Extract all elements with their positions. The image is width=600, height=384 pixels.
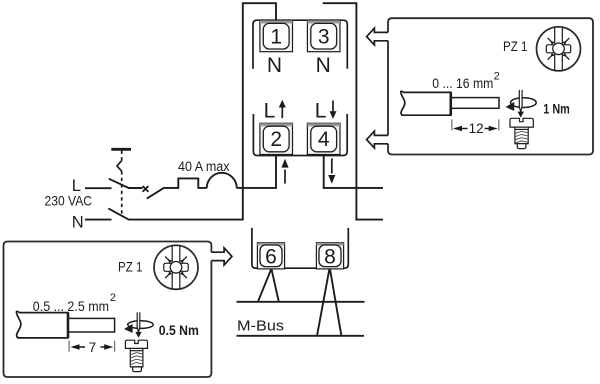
breaker contact X mark <box>143 186 149 192</box>
terminal 1 <box>260 21 293 52</box>
svg-text:2: 2 <box>110 292 116 304</box>
M-Bus line A <box>237 301 365 303</box>
cable stripped conductor (right box) <box>451 98 499 109</box>
svg-text:8: 8 <box>324 246 336 269</box>
cable insulated (right box) <box>401 91 451 115</box>
fuse square bump 40A <box>178 178 198 188</box>
svg-text:PZ 1: PZ 1 <box>503 38 528 54</box>
svg-text:M-Bus: M-Bus <box>237 318 284 335</box>
torque rotation symbol (left box) <box>124 312 153 338</box>
terminal 6 <box>257 243 284 269</box>
wire L out: terminal 4 to load L <box>323 155 383 188</box>
info box left (M-Bus terminals) <box>4 242 212 378</box>
arrow from box to terminal row 1/3 <box>367 28 388 45</box>
svg-text:12: 12 <box>469 121 484 136</box>
svg-text:40 A max: 40 A max <box>178 159 230 174</box>
svg-text:N: N <box>72 213 84 231</box>
switch actuator bar <box>111 148 131 151</box>
terminal screw (left box) <box>125 340 147 371</box>
wire L in: breaker L pole to terminal 2 <box>85 155 276 189</box>
M-Bus line B <box>237 335 365 337</box>
svg-text:6: 6 <box>265 246 277 269</box>
switch blade N pole <box>108 208 128 219</box>
svg-text:2: 2 <box>270 128 282 151</box>
M-Bus wire pair from terminal 8 <box>317 270 341 336</box>
svg-text:N: N <box>267 54 282 77</box>
svg-text:2: 2 <box>494 70 500 82</box>
wire N in: from breaker N pole up and into terminal 1 <box>85 2 276 220</box>
cable insulated (left box) <box>16 311 68 338</box>
terminal screw (right box) <box>510 118 533 148</box>
svg-text:0.5 ... 2.5 mm: 0.5 ... 2.5 mm <box>33 298 109 314</box>
svg-text:230 VAC: 230 VAC <box>45 193 93 209</box>
wire N out: terminal 3 to load N <box>323 2 383 219</box>
svg-text:PZ 1: PZ 1 <box>118 259 143 275</box>
info box right (wiring L/N terminals) <box>388 18 593 154</box>
switch blade L pole <box>109 179 129 188</box>
svg-text:1: 1 <box>270 26 282 49</box>
strip length dimension 12 <box>452 119 499 135</box>
strip length dimension 7 <box>69 340 115 355</box>
torque rotation symbol (right box) <box>506 90 537 118</box>
svg-text:7: 7 <box>89 340 97 355</box>
terminal 2 <box>260 123 293 154</box>
switch linkage dashed line <box>121 151 123 217</box>
pozidriv screwdriver icon (left box) <box>154 245 198 289</box>
M-Bus wire pair from terminal 6 <box>258 270 279 302</box>
arrow down beside L (out of terminal 4) <box>330 101 337 119</box>
svg-text:4: 4 <box>318 128 330 151</box>
release chevron on linkage <box>117 160 122 171</box>
svg-text:L: L <box>315 99 327 122</box>
svg-text:0 ... 16 mm: 0 ... 16 mm <box>432 75 493 91</box>
terminal plate bracket M-Bus (6,8) <box>252 228 348 268</box>
terminal plate bracket top (1,3) <box>253 20 347 69</box>
svg-text:0.5 Nm: 0.5 Nm <box>159 322 199 338</box>
svg-text:1 Nm: 1 Nm <box>543 101 570 117</box>
arrow from box to terminal row 2/4 <box>367 131 388 148</box>
svg-text:3: 3 <box>318 26 330 49</box>
pozidriv screwdriver icon (right box) <box>537 27 581 71</box>
breaker blade <box>147 188 164 199</box>
terminal 4 <box>307 123 340 154</box>
svg-text:L: L <box>264 99 276 122</box>
arrow up into terminal 2 (below) <box>281 159 288 184</box>
arrow from box to M-Bus terminals <box>211 248 232 265</box>
cable stripped conductor (left box) <box>69 318 115 332</box>
svg-text:N: N <box>316 54 331 77</box>
terminal plate bracket middle (2,4) <box>253 114 347 156</box>
arrow up beside L (into terminal 2) <box>279 100 286 118</box>
terminal 3 <box>307 21 340 52</box>
coil round bump <box>207 173 237 188</box>
terminal 8 <box>316 243 343 269</box>
arrow down out of terminal 4 (below) <box>328 158 335 183</box>
